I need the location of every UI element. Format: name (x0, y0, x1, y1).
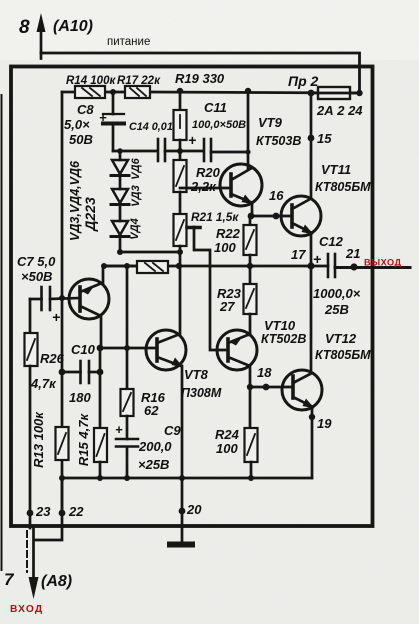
pin 22 (59, 510, 66, 517)
svg-text:С9: С9 (164, 423, 181, 438)
ground (167, 542, 195, 548)
svg-text:С7 5,0: С7 5,0 (17, 254, 56, 269)
svg-text:R14 100к: R14 100к (66, 75, 116, 87)
svg-text:22: 22 (68, 504, 84, 519)
junction R21 bottom on output rail (176, 263, 182, 269)
svg-text:R19 330: R19 330 (175, 71, 225, 86)
svg-text:VТ10: VТ10 (264, 318, 296, 333)
svg-text:100,0×50В: 100,0×50В (192, 119, 246, 131)
resistor R17 (125, 86, 150, 98)
transistor VT7 (69, 266, 109, 348)
junction VT10 collector to VT12 base (247, 384, 253, 390)
wire pin22 drop (61, 478, 64, 514)
junction R15 bottom on ground rail (97, 475, 103, 481)
wire R15 branch (99, 348, 102, 428)
svg-text:17: 17 (291, 247, 306, 262)
junction C10 right (97, 369, 104, 376)
svg-text:+: + (188, 132, 196, 148)
svg-text:Д223: Д223 (82, 197, 98, 232)
junction R24 bottom on ground rail (248, 475, 254, 481)
svg-text:VД3,VД4,VД6: VД3,VД4,VД6 (68, 160, 82, 241)
svg-text:R21 1,5к: R21 1,5к (191, 210, 239, 224)
svg-text:С8: С8 (77, 102, 94, 117)
wire diode bottom to R21 bottom (120, 251, 180, 254)
pin 15 (308, 135, 315, 142)
svg-text:1000,0×: 1000,0× (313, 286, 361, 301)
svg-text:100: 100 (214, 240, 236, 255)
svg-text:R17 22к: R17 22к (117, 75, 161, 87)
pin 23 (27, 510, 34, 517)
wire input drop below box (27, 514, 39, 599)
wire R16 branch from output rail (126, 266, 129, 389)
svg-text:VД6: VД6 (130, 157, 142, 179)
svg-text:15: 15 (317, 131, 332, 146)
pin 18 (263, 384, 270, 391)
pin 19 (309, 414, 315, 420)
svg-text:19: 19 (317, 416, 332, 431)
capacitor C7 (30, 287, 80, 310)
svg-text:2А 2 24: 2А 2 24 (316, 103, 363, 118)
svg-text:50В: 50В (69, 132, 93, 147)
svg-text:18: 18 (257, 365, 272, 380)
junction R19 bottom node (177, 148, 183, 154)
resistor R16 (121, 389, 134, 439)
junction fuse left terminal (308, 90, 315, 97)
svg-text:8: 8 (19, 17, 30, 38)
svg-text:питание: питание (107, 36, 150, 48)
junction diode bottom (117, 249, 123, 255)
capacitor C10 (62, 361, 100, 383)
enclosure box (11, 67, 373, 527)
junction VT9 collector on supply rail (245, 88, 251, 94)
junction C11 right plate to collector (245, 149, 250, 154)
junction left bus C10 (59, 369, 66, 376)
svg-text:4,7к: 4,7к (30, 376, 57, 391)
svg-text:×50В: ×50В (21, 269, 52, 284)
svg-text:R20: R20 (196, 165, 221, 180)
junction left bus C7 (59, 295, 65, 301)
svg-text:+: + (52, 309, 60, 325)
wire output rail (104, 265, 311, 268)
svg-text:R13 100к: R13 100к (31, 411, 46, 468)
svg-text:100: 100 (216, 441, 238, 456)
capacitor C11 (204, 139, 248, 161)
resistor R14 (75, 86, 105, 98)
svg-text:5,0×: 5,0× (64, 117, 90, 132)
svg-text:R15 4,7к: R15 4,7к (76, 413, 91, 467)
wire power rail top (41, 53, 360, 93)
capacitor C8 (103, 92, 124, 151)
wire top supply rail inside box (62, 92, 360, 93)
svg-text:+: + (313, 251, 321, 267)
wire left bus (61, 92, 64, 514)
svg-text:VТ8: VТ8 (184, 367, 209, 382)
svg-text:R22: R22 (216, 226, 241, 241)
fuse Pr2 (311, 87, 360, 99)
pin 17 (307, 262, 314, 269)
transistor VT11 (281, 93, 321, 266)
svg-text:25В: 25В (324, 302, 349, 317)
svg-text:П308М: П308М (181, 386, 222, 400)
svg-text:+: + (99, 110, 107, 125)
transistor VT8 (146, 266, 186, 478)
svg-text:20: 20 (186, 502, 202, 517)
junction R19 top on supply rail (177, 88, 183, 94)
junction C9 bottom on ground rail (124, 475, 130, 481)
svg-text:(А8): (А8) (41, 573, 72, 590)
node 8 input arrow (A10) (37, 13, 46, 59)
diode VD3 (111, 189, 129, 221)
svg-text:КТ503В: КТ503В (256, 134, 301, 148)
junction VT7 emitter on output rail (101, 263, 107, 269)
junction diode top node (117, 148, 123, 154)
junction R16 line on VT8 base wire (124, 345, 130, 351)
junction fuse right terminal (356, 90, 362, 96)
junction R14-R17-C8 (110, 89, 116, 95)
wire pin22 shield elbow (35, 514, 62, 540)
resistor R15 (94, 428, 107, 478)
diode VD4 (111, 221, 129, 252)
svg-text:16: 16 (269, 188, 284, 203)
pin 21 (350, 263, 357, 270)
resistor R22 (244, 216, 257, 266)
wire ground rail (62, 477, 312, 480)
transistor VT12 (282, 266, 322, 478)
resistor R19 (174, 91, 187, 151)
svg-text:2,2к: 2,2к (190, 179, 217, 194)
capacitor C14 (158, 139, 203, 161)
svg-text:180: 180 (69, 390, 91, 405)
pin 16 (273, 213, 280, 220)
capacitor C12 (311, 254, 410, 277)
svg-text:Пр 2: Пр 2 (288, 73, 319, 89)
svg-text:23: 23 (35, 504, 51, 519)
svg-text:VД4: VД4 (129, 218, 141, 239)
wire VT10 collector to VT12 base (250, 386, 293, 389)
resistor R21 (with tap) (174, 214, 229, 350)
resistor R18 (104, 261, 168, 273)
svg-text:62: 62 (144, 403, 159, 418)
junction VT9 emitter node (248, 213, 255, 220)
junction left bus ground rail (59, 475, 65, 481)
svg-text:VТ9: VТ9 (258, 115, 283, 130)
svg-text:27: 27 (219, 299, 235, 314)
svg-text:С11: С11 (204, 100, 227, 115)
junction diode wire to R21 bottom (177, 249, 183, 255)
diode VD6 (111, 151, 129, 189)
svg-text:ВЫХОД: ВЫХОД (364, 258, 402, 268)
capacitor C9 (116, 439, 138, 478)
svg-text:КТ502В: КТ502В (261, 332, 306, 346)
wire pin20 drop and ground stem (181, 478, 184, 543)
svg-text:(А10): (А10) (53, 18, 93, 35)
junction R16 branch on output rail (124, 263, 130, 269)
wire VT9 emitter to VT11 base (252, 215, 292, 218)
svg-text:С12: С12 (319, 234, 344, 249)
scan edge artifact left (1, 95, 3, 570)
svg-text:R24: R24 (215, 427, 240, 442)
resistor R13 (56, 427, 69, 460)
svg-text:7: 7 (4, 570, 15, 589)
junction VT8 emitter on ground rail (179, 475, 185, 481)
svg-text:VТ11: VТ11 (321, 162, 351, 177)
svg-text:R26: R26 (40, 351, 65, 366)
junction VT7 collector node (97, 345, 104, 352)
wire VT7 collector node to VT8 base (100, 347, 157, 350)
svg-text:VТ12: VТ12 (325, 331, 357, 346)
svg-text:С14 0,01: С14 0,01 (129, 121, 173, 133)
wire bias string top (113, 150, 156, 153)
transistor VT10 (217, 330, 257, 428)
svg-text:КТ805БМ: КТ805БМ (315, 180, 371, 194)
svg-text:200,0: 200,0 (138, 439, 172, 454)
resistor R23 (244, 266, 257, 335)
pin 20 (179, 508, 186, 515)
resistor R24 (245, 428, 258, 478)
svg-text:VД3: VД3 (130, 185, 142, 206)
svg-text:С10: С10 (71, 342, 96, 357)
junction R22-R23 on output rail (247, 263, 253, 269)
resistor R26 (25, 299, 38, 513)
svg-text:+: + (115, 422, 123, 437)
svg-text:КТ805БМ: КТ805БМ (315, 348, 371, 362)
svg-text:×25В: ×25В (138, 457, 169, 472)
svg-text:ВХОД: ВХОД (10, 604, 43, 615)
svg-text:21: 21 (345, 246, 360, 261)
resistor R20 (174, 151, 187, 214)
transistor VT9 (180, 92, 262, 216)
